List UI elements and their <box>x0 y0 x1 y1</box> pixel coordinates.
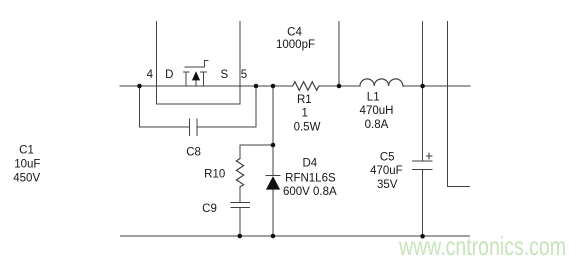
transistor Q1 substrate arrow <box>192 71 200 80</box>
capacitor C9 plates <box>231 202 250 207</box>
svg-text:D4: D4 <box>302 158 317 170</box>
resistor R10 lead top <box>239 145 241 159</box>
svg-text:C4: C4 <box>287 27 302 39</box>
svg-text:470uH: 470uH <box>360 105 394 117</box>
svg-text:RFN1L6S: RFN1L6S <box>285 172 336 184</box>
svg-text:4: 4 <box>147 69 154 81</box>
wire L1 to right end <box>403 85 470 87</box>
wire R1 to L1 <box>319 85 360 87</box>
svg-text:S: S <box>220 69 228 81</box>
capacitor C9 lead bottom <box>239 207 241 236</box>
svg-text:L1: L1 <box>367 91 380 103</box>
node junction dot main rail x139 <box>137 84 142 89</box>
svg-text:R1: R1 <box>297 94 312 106</box>
node junction dot ground x422 <box>420 234 425 239</box>
diode D4 cathode bar <box>266 175 280 177</box>
svg-text:D: D <box>165 69 173 81</box>
node junction dot R10 tap <box>271 143 276 148</box>
svg-text:0.5W: 0.5W <box>294 122 321 134</box>
resistor R10 lead bottom <box>239 187 241 202</box>
capacitor C8 plates <box>190 119 198 136</box>
svg-text:1: 1 <box>301 107 307 119</box>
svg-text:R10: R10 <box>204 169 225 181</box>
node junction dot main rail x422 <box>420 84 425 89</box>
capacitor C8 loop left <box>140 86 190 127</box>
svg-text:35V: 35V <box>377 179 398 191</box>
inductor L1 coil <box>360 79 403 86</box>
resistor R1 zigzag <box>293 82 319 91</box>
wire bottom ground rail <box>121 235 470 237</box>
svg-text:10uF: 10uF <box>14 159 40 171</box>
wire R10 top connector <box>240 144 273 146</box>
node junction dot main rail x256 <box>254 84 259 89</box>
transistor box (cropped at top) <box>157 22 241 105</box>
capacitor C5 plates <box>412 161 432 169</box>
svg-text:C9: C9 <box>202 203 217 215</box>
diode D4 triangle <box>266 176 280 190</box>
node junction dot ground x240 <box>238 234 243 239</box>
wire right vertical 2 with corner <box>447 22 469 187</box>
svg-text:600V 0.8A: 600V 0.8A <box>283 186 337 198</box>
transistor Q1 MOSFET gate plate with riser and stub <box>185 61 208 68</box>
capacitor C4 lead vertical <box>338 22 340 87</box>
wire main horizontal rail left <box>120 85 293 87</box>
wire right vertical through C5 <box>422 22 424 237</box>
svg-text:C1: C1 <box>19 145 34 157</box>
svg-text:C5: C5 <box>380 151 395 163</box>
svg-text:0.8A: 0.8A <box>365 119 389 131</box>
capacitor C8 loop right <box>197 86 256 127</box>
resistor R10 zigzag <box>236 159 243 188</box>
transistor Q1 substrate arrow lead <box>195 80 197 86</box>
svg-text:www.cntronics.com: www.cntronics.com <box>398 231 566 261</box>
node junction dot ground x273 <box>271 234 276 239</box>
diode D4 branch vertical bottom <box>272 189 274 236</box>
svg-text:450V: 450V <box>13 172 40 184</box>
svg-text:1000pF: 1000pF <box>276 39 315 51</box>
node junction dot main rail x339 <box>337 84 342 89</box>
transistor Q1 contact caps and leads <box>183 72 206 86</box>
capacitor C5 plus sign <box>426 153 432 159</box>
svg-text:470uF: 470uF <box>370 165 403 177</box>
node junction dot main rail x273 <box>271 84 276 89</box>
svg-text:5: 5 <box>241 69 247 81</box>
svg-text:C8: C8 <box>186 146 201 158</box>
diode D4 branch vertical top <box>272 86 274 176</box>
